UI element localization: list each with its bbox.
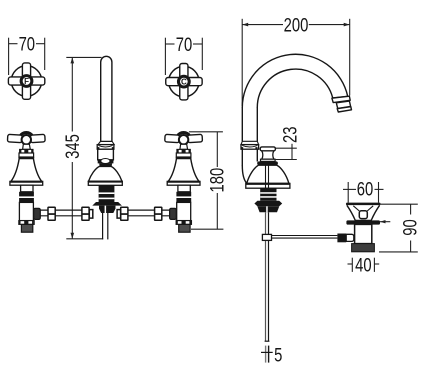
- svg-text:90: 90: [400, 219, 421, 235]
- svg-text:345: 345: [62, 134, 83, 159]
- svg-text:23: 23: [280, 127, 301, 143]
- svg-text:180: 180: [207, 168, 228, 193]
- svg-text:70: 70: [176, 34, 192, 55]
- svg-text:200: 200: [284, 15, 309, 36]
- svg-text:60: 60: [357, 179, 373, 200]
- svg-text:C: C: [181, 78, 187, 87]
- svg-text:5: 5: [274, 345, 282, 365]
- svg-text:40: 40: [355, 255, 371, 276]
- svg-text:70: 70: [19, 34, 35, 55]
- svg-text:F: F: [24, 77, 29, 86]
